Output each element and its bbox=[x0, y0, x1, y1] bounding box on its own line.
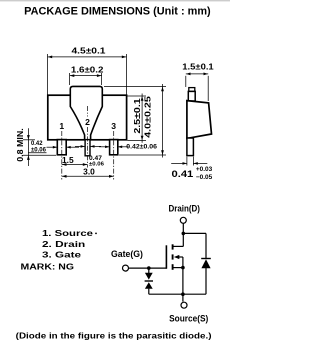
svg-text:2: 2 bbox=[85, 117, 90, 127]
wire source lead bbox=[173, 267, 183, 269]
wire drain lead bbox=[173, 245, 183, 247]
svg-text:4.5±0.1: 4.5±0.1 bbox=[72, 45, 106, 55]
svg-text:1.5: 1.5 bbox=[62, 155, 74, 165]
dimension 4.0±0.25 (right, rotated) bbox=[104, 84, 166, 158]
gate terminal bbox=[123, 265, 129, 271]
gate bar bbox=[165, 245, 167, 268]
wire gate bbox=[129, 267, 167, 269]
svg-text:PACKAGE DIMENSIONS (Unit : mm): PACKAGE DIMENSIONS (Unit : mm) bbox=[24, 6, 211, 18]
wire top rail bbox=[183, 232, 206, 234]
label 0.47±0.06 for lead 2 bbox=[75, 145, 101, 147]
svg-text:1. Source: 1. Source bbox=[42, 228, 93, 238]
parasitic diode (body diode) bbox=[201, 258, 211, 260]
wire drain stem bbox=[182, 223, 184, 246]
dimension 3.0 (lead span) bbox=[62, 175, 114, 177]
drain tab + internal funnel bbox=[70, 86, 102, 139]
label 0.42±0.06 for lead 1 bbox=[28, 147, 79, 153]
wire diode branch lower bbox=[205, 268, 207, 294]
channel segment body bbox=[172, 254, 174, 259]
svg-text:2. Drain: 2. Drain bbox=[42, 239, 85, 249]
svg-text:4.0±0.25: 4.0±0.25 bbox=[144, 96, 153, 138]
svg-text:Gate(G): Gate(G) bbox=[111, 249, 143, 259]
drain terminal bbox=[180, 217, 186, 223]
wire diode branch upper bbox=[205, 233, 207, 258]
lead 3 bbox=[110, 140, 118, 155]
svg-text:0.42±0.06: 0.42±0.06 bbox=[126, 144, 157, 151]
svg-text:Source(S): Source(S) bbox=[169, 314, 208, 324]
dimension 0.41 +0.03/-0.05 bbox=[171, 157, 207, 166]
lead 2 bbox=[85, 140, 90, 156]
label 0.42±0.06 for lead 3 bbox=[99, 146, 129, 148]
wire source vertical bbox=[182, 268, 184, 302]
channel segment source bbox=[172, 264, 174, 270]
svg-text:−0.05: −0.05 bbox=[196, 174, 213, 181]
dimension 0.8 MIN. (left, rotated) bbox=[23, 128, 56, 166]
svg-text:0.41: 0.41 bbox=[172, 169, 195, 180]
dimension 1.6±0.2 bbox=[70, 73, 102, 85]
wire body lead with arrow bbox=[177, 256, 183, 258]
protection diode pair (back-to-back zener) bbox=[145, 273, 153, 280]
svg-text:0.42: 0.42 bbox=[31, 141, 43, 147]
svg-text:1: 1 bbox=[59, 121, 64, 131]
dimension 4.5±0.1 bbox=[48, 54, 127, 95]
svg-text:1.5±0.1: 1.5±0.1 bbox=[182, 62, 214, 72]
dimension 2.5±0.1 (right, rotated) bbox=[127, 94, 146, 143]
svg-text:0.8 MIN.: 0.8 MIN. bbox=[16, 128, 25, 162]
svg-text:3.0: 3.0 bbox=[83, 167, 95, 177]
svg-text:±0.06: ±0.06 bbox=[31, 147, 47, 153]
package body outline bbox=[48, 95, 127, 140]
dimension 1.5±0.1 (side view width) bbox=[186, 74, 208, 101]
wire zener lower bbox=[148, 289, 150, 295]
svg-text:1.6±0.2: 1.6±0.2 bbox=[71, 64, 104, 74]
svg-text:2.5±0.1: 2.5±0.1 bbox=[132, 98, 142, 134]
svg-text:Drain(D): Drain(D) bbox=[168, 204, 200, 214]
node source lead junction bbox=[181, 266, 185, 270]
wire zener upper bbox=[148, 268, 150, 273]
faint scan line at top bbox=[0, 0, 230, 2]
node drain junction bbox=[182, 232, 186, 236]
side view lead bbox=[187, 138, 194, 156]
svg-text:+0.03: +0.03 bbox=[196, 166, 213, 173]
svg-text:3: 3 bbox=[111, 121, 116, 131]
centerline lead 3 bbox=[113, 131, 115, 180]
centerline lead 1 bbox=[61, 131, 63, 180]
lead 1 bbox=[57, 140, 66, 155]
centerline lead 2 bbox=[87, 106, 89, 117]
source terminal bbox=[181, 302, 187, 308]
side view tab bbox=[188, 88, 195, 101]
node gate junction bbox=[147, 266, 151, 270]
channel segment drain bbox=[172, 244, 174, 249]
svg-text:MARK: NG: MARK: NG bbox=[21, 262, 75, 272]
node source junction bbox=[181, 292, 185, 296]
side view body (wedge) bbox=[187, 101, 212, 139]
svg-text:3. Gate: 3. Gate bbox=[42, 250, 81, 260]
dimension 1.5 (lead pitch) bbox=[62, 164, 88, 166]
svg-text:(Diode in the figure is the pa: (Diode in the figure is the parasitic di… bbox=[16, 330, 212, 340]
wire bottom rail bbox=[149, 293, 206, 295]
